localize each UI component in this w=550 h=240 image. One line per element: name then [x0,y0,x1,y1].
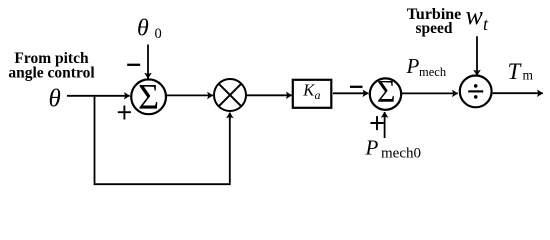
svg-text:0: 0 [155,26,162,42]
wire: theta0 down into summing junction S1 [147,45,149,79]
svg-text:mech: mech [419,65,447,79]
svg-text:mech0: mech0 [381,146,421,162]
svg-text:θ: θ [49,85,61,112]
sign: plus at left input of S1 [118,106,131,120]
svg-text:angle control: angle control [8,65,95,82]
sign: minus at top input of S1 [127,64,140,66]
gain block Ka [293,80,332,108]
summing junction S2 (sigma) [370,78,401,109]
divider D1 (circle with division sign) [460,76,492,108]
wire: S2 to divider D1 [401,92,458,94]
sign: minus at left input of S2 [350,86,363,88]
summing junction S1 (sigma) [131,79,166,114]
svg-text:θ: θ [137,16,149,42]
wire: Ka to summing junction S2 [333,92,368,94]
wire: wt down into divider D1 [476,36,478,75]
svg-text:T: T [508,59,523,84]
wire: feedback branch from theta line, down, right, up into M1 [95,96,230,184]
svg-text:m: m [523,68,534,83]
wire: M1 to gain block Ka [246,94,292,96]
svg-text:P: P [365,135,379,159]
svg-text:Σ: Σ [377,73,396,109]
svg-text:P: P [406,54,420,78]
svg-text:w: w [466,1,484,30]
wire: theta input to summing junction S1 [67,95,130,97]
svg-text:Σ: Σ [138,76,159,116]
wire: S1 to multiplier M1 [167,94,213,96]
svg-text:speed: speed [415,20,452,37]
multiplier M1 (circle with X) [214,79,246,111]
svg-text:a: a [315,88,321,102]
wire: Pmech0 up into S2 [384,112,386,138]
svg-text:t: t [483,14,489,34]
svg-text:K: K [302,81,315,100]
sign: plus at bottom input of S2 [370,116,383,130]
wire: D1 to output Tm [493,92,543,94]
